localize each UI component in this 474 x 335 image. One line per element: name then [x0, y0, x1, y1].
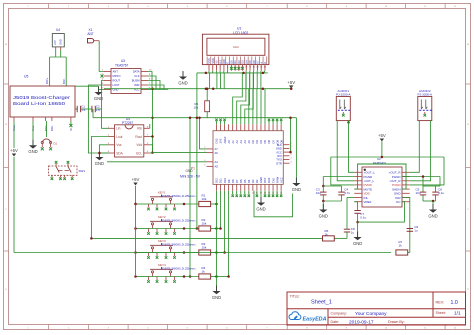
- svg-text:Rout: Rout: [135, 135, 142, 139]
- svg-text:EasyEDA: EasyEDA: [303, 316, 327, 322]
- svg-text:D13: D13: [215, 138, 219, 143]
- svg-text:D3: D3: [255, 140, 259, 144]
- svg-text:10k: 10k: [202, 245, 207, 249]
- svg-text:PJ-3200-A: PJ-3200-A: [336, 93, 352, 97]
- svg-text:GND: GND: [256, 206, 265, 211]
- svg-text:SCL: SCL: [136, 151, 142, 155]
- svg-text:GND: GND: [292, 187, 301, 192]
- svg-text:A1: A1: [231, 140, 235, 144]
- svg-text:3V3: 3V3: [219, 138, 223, 143]
- svg-text:GND: GND: [178, 80, 187, 85]
- svg-text:1k: 1k: [399, 244, 403, 248]
- svg-text:11: 11: [245, 67, 247, 69]
- svg-text:SDA: SDA: [116, 151, 123, 155]
- svg-text:10u: 10u: [416, 191, 421, 195]
- svg-text:.6*6*5,260G,0.25mm.: .6*6*5,260G,0.25mm.: [160, 194, 197, 198]
- svg-text:.6*6*5,260G,0.25mm.: .6*6*5,260G,0.25mm.: [160, 218, 197, 222]
- svg-text:4: 4: [220, 67, 221, 69]
- svg-text:VREF: VREF: [364, 200, 372, 204]
- svg-text:+5V: +5V: [378, 133, 386, 138]
- svg-text:A4: A4: [243, 140, 247, 144]
- svg-text:1u: 1u: [351, 231, 355, 235]
- svg-text:Company:: Company:: [331, 312, 347, 316]
- svg-text:A7: A7: [215, 147, 219, 151]
- svg-text:J5019 Boost-Charger: J5019 Boost-Charger: [13, 95, 70, 101]
- svg-text:D4: D4: [244, 60, 248, 64]
- svg-text:Rin: Rin: [137, 127, 142, 131]
- svg-text:U5: U5: [24, 75, 28, 79]
- svg-text:GND: GND: [95, 161, 104, 166]
- svg-text:D1: D1: [233, 60, 237, 64]
- svg-text:GND: GND: [353, 241, 362, 246]
- svg-text:14: 14: [256, 67, 258, 69]
- svg-text:D6: D6: [239, 179, 243, 183]
- svg-text:BUSM: BUSM: [132, 79, 141, 83]
- svg-text:A3: A3: [239, 140, 243, 144]
- svg-text:GND: GND: [276, 147, 282, 151]
- svg-text:U1: U1: [237, 26, 241, 30]
- svg-text:Vdd: Vdd: [136, 143, 142, 147]
- svg-text:Date:: Date:: [331, 320, 340, 324]
- svg-text:1u: 1u: [414, 229, 418, 233]
- svg-text:1.6: 1.6: [81, 108, 85, 112]
- svg-text:V0: V0: [215, 60, 219, 64]
- svg-text:D1: D1: [54, 141, 58, 145]
- svg-text:1k: 1k: [202, 269, 206, 273]
- svg-text:SW1: SW1: [79, 169, 86, 173]
- svg-text:RST: RST: [263, 177, 267, 183]
- svg-text:D10: D10: [223, 178, 227, 183]
- svg-text:2019-09-17: 2019-09-17: [349, 319, 374, 325]
- svg-text:15: 15: [260, 67, 262, 69]
- svg-text:D6: D6: [252, 60, 256, 64]
- svg-text:+5V: +5V: [53, 40, 57, 45]
- svg-text:D7: D7: [256, 60, 260, 64]
- svg-text:Your Company: Your Company: [355, 311, 387, 317]
- svg-text:13: 13: [253, 67, 255, 69]
- svg-text:1.0: 1.0: [451, 300, 458, 306]
- svg-text:TITLE:: TITLE:: [290, 295, 300, 299]
- svg-text:A6: A6: [215, 151, 219, 155]
- svg-text:VCC: VCC: [279, 177, 283, 183]
- svg-text:D5: D5: [263, 140, 267, 144]
- svg-text:K: K: [263, 62, 267, 64]
- svg-text:RX0: RX0: [267, 177, 271, 183]
- svg-text:Lout: Lout: [116, 135, 122, 139]
- svg-text:ANT: ANT: [87, 32, 93, 36]
- svg-text:A: A: [259, 62, 263, 64]
- svg-text:IN-: IN-: [69, 127, 73, 131]
- svg-text:+5V: +5V: [10, 148, 18, 153]
- svg-text:12: 12: [249, 67, 251, 69]
- svg-text:D3: D3: [251, 179, 255, 183]
- svg-text:D6: D6: [267, 140, 271, 144]
- svg-text:Sheet:: Sheet:: [436, 311, 446, 315]
- svg-text:D2: D2: [255, 179, 259, 183]
- svg-text:GND: GND: [59, 39, 63, 45]
- svg-text:+5V: +5V: [287, 80, 295, 85]
- svg-text:2: 2: [212, 67, 213, 69]
- svg-text:10k: 10k: [202, 197, 207, 201]
- svg-text:D2: D2: [237, 60, 241, 64]
- svg-text:ANT: ANT: [113, 70, 119, 74]
- svg-text:RAW: RAW: [275, 176, 279, 183]
- svg-text:0.1u: 0.1u: [438, 191, 444, 195]
- svg-text:10k: 10k: [194, 105, 199, 109]
- svg-text:GND: GND: [319, 213, 328, 218]
- svg-text:RW: RW: [222, 59, 226, 64]
- svg-text:VCC: VCC: [276, 150, 282, 154]
- svg-text:TX0: TX0: [271, 178, 275, 183]
- svg-text:1k: 1k: [325, 232, 329, 236]
- svg-text:D3: D3: [241, 60, 245, 64]
- svg-text:D11: D11: [219, 178, 223, 183]
- svg-text:X4: X4: [56, 28, 60, 32]
- svg-text:Mini 328 - 5V: Mini 328 - 5V: [180, 175, 201, 179]
- svg-text:0.1u: 0.1u: [360, 215, 366, 219]
- svg-text:D7: D7: [235, 179, 239, 183]
- svg-text:TXO: TXO: [276, 158, 282, 162]
- svg-text:3: 3: [216, 67, 217, 69]
- svg-text:DTR: DTR: [276, 161, 282, 165]
- svg-text:D9: D9: [227, 179, 231, 183]
- svg-text:D4: D4: [259, 140, 263, 144]
- svg-text:ROUT: ROUT: [113, 79, 121, 83]
- svg-text:1/1: 1/1: [454, 311, 461, 317]
- svg-text:A4: A4: [215, 160, 219, 164]
- svg-text:D8: D8: [231, 179, 235, 183]
- svg-text:16x2: 16x2: [233, 45, 239, 49]
- svg-text:Vss: Vss: [116, 143, 122, 147]
- svg-text:D7: D7: [271, 140, 275, 144]
- svg-text:A2: A2: [235, 140, 239, 144]
- svg-text:GND: GND: [212, 295, 221, 300]
- svg-text:U3: U3: [121, 59, 125, 63]
- svg-text:4.7u: 4.7u: [344, 191, 350, 195]
- svg-text:D5: D5: [248, 60, 252, 64]
- svg-text:GND: GND: [186, 169, 194, 173]
- svg-text:Lin: Lin: [116, 127, 120, 131]
- svg-text:LOUT: LOUT: [113, 83, 121, 87]
- svg-text:Board Li-Ion 18650: Board Li-Ion 18650: [13, 101, 65, 107]
- svg-text:6: 6: [227, 67, 228, 69]
- svg-text:AREF: AREF: [223, 136, 227, 144]
- svg-text:A5: A5: [215, 165, 219, 169]
- svg-text:VSS: VSS: [207, 58, 211, 63]
- svg-text:W/R: W/R: [134, 83, 139, 87]
- svg-text:E: E: [226, 62, 230, 64]
- svg-text:TEA5767: TEA5767: [115, 64, 129, 68]
- svg-text:10k: 10k: [202, 221, 207, 225]
- svg-text:BAT-: BAT-: [50, 125, 54, 131]
- svg-text:+5V: +5V: [132, 177, 140, 182]
- svg-text:D5: D5: [243, 179, 247, 183]
- svg-text:BAT-: BAT-: [62, 78, 66, 84]
- svg-text:D4: D4: [247, 179, 251, 183]
- svg-text:Sheet_1: Sheet_1: [311, 299, 332, 305]
- svg-text:A5: A5: [247, 140, 251, 144]
- svg-text:Drawn By:: Drawn By:: [388, 320, 405, 324]
- svg-text:GND: GND: [28, 149, 37, 154]
- svg-text:D12: D12: [215, 178, 219, 183]
- svg-text:GND: GND: [428, 213, 437, 218]
- svg-text:PJ-3200-A: PJ-3200-A: [417, 93, 433, 97]
- svg-text:.6*6*5,260G,0.25mm.: .6*6*5,260G,0.25mm.: [160, 266, 197, 270]
- svg-text:RS: RS: [218, 60, 222, 64]
- svg-text:MPXO: MPXO: [113, 74, 121, 78]
- svg-text:D2: D2: [251, 140, 255, 144]
- svg-text:BLK: BLK: [277, 143, 282, 147]
- svg-text:5: 5: [223, 67, 224, 69]
- svg-text:BAT+: BAT+: [44, 124, 48, 131]
- svg-text:RXI: RXI: [277, 154, 282, 158]
- svg-text:REV:: REV:: [436, 301, 445, 305]
- svg-text:VDD: VDD: [211, 58, 215, 64]
- svg-text:.6*6*5,260G,0.25mm.: .6*6*5,260G,0.25mm.: [160, 242, 197, 246]
- svg-text:10u: 10u: [316, 191, 321, 195]
- svg-text:1.6: 1.6: [96, 108, 100, 112]
- svg-text:D0: D0: [229, 60, 233, 64]
- svg-text:GND: GND: [259, 177, 263, 183]
- svg-text:BAT+: BAT+: [45, 77, 49, 84]
- svg-text:1: 1: [208, 67, 209, 69]
- svg-text:A0: A0: [227, 140, 231, 144]
- svg-text:16: 16: [264, 67, 266, 69]
- svg-text:CLK: CLK: [134, 74, 139, 78]
- svg-text:DATA: DATA: [133, 70, 140, 74]
